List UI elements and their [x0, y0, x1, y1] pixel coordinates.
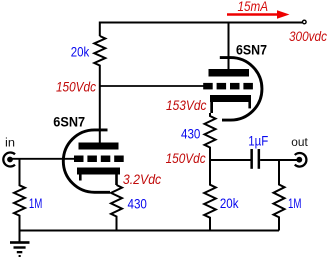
wire: input to V1 grid: [9, 158, 74, 160]
svg-text:430: 430: [181, 126, 201, 142]
svg-text:15mA: 15mA: [238, 0, 269, 14]
tube V1 plate: [79, 143, 119, 150]
svg-text:6SN7: 6SN7: [53, 113, 85, 129]
svg-text:153Vdc: 153Vdc: [166, 97, 207, 113]
svg-text:20k: 20k: [71, 44, 90, 60]
tube V2 grid: [203, 83, 253, 90]
wire: ground rail: [20, 230, 280, 232]
svg-text:1M: 1M: [288, 195, 302, 211]
svg-text:150Vdc: 150Vdc: [166, 150, 206, 166]
tube V1 cathode: [77, 168, 120, 175]
svg-text:20k: 20k: [220, 195, 239, 211]
tube V2 cathode: [210, 95, 251, 102]
wire: node to V2 grid: [100, 85, 204, 87]
svg-text:in: in: [5, 137, 15, 149]
tube V1 cathode lead: [115, 175, 118, 186]
svg-text:1M: 1M: [29, 195, 43, 211]
tube V2 cathode lead: [210, 102, 213, 113]
tube V1 envelope: [63, 130, 110, 192]
ground: [10, 241, 30, 257]
resistor R4 430 (V2 cathode): [205, 113, 216, 160]
wire: V1 plate lead: [99, 86, 101, 143]
tube V2 cathode hook: [248, 102, 251, 108]
svg-text:150Vdc: 150Vdc: [56, 79, 96, 95]
resistor R6 1M (output): [274, 160, 285, 231]
svg-text:6SN7: 6SN7: [236, 41, 267, 57]
tube V1 cathode hook: [79, 175, 82, 181]
wire: node to capacitor: [210, 159, 251, 161]
wire: V2 plate lead: [228, 23, 230, 71]
wire: capacitor to out: [260, 159, 297, 161]
svg-text:1µF: 1µF: [248, 133, 268, 149]
svg-text:300vdc: 300vdc: [289, 28, 327, 44]
current arrow 15mA: [227, 13, 279, 16]
resistor R1 20k (V1 plate load): [94, 36, 105, 86]
svg-text:out: out: [291, 137, 308, 149]
svg-text:430: 430: [128, 195, 148, 211]
terminal J2 out: [295, 153, 307, 167]
svg-text:3.2Vdc: 3.2Vdc: [123, 171, 161, 187]
capacitor C1 1uF: [250, 149, 253, 169]
terminal B+ 300vdc: [303, 20, 307, 24]
tube V2 plate: [209, 69, 250, 77]
resistor R5 20k (V2 load): [204, 160, 216, 231]
tube V2 envelope: [220, 58, 262, 121]
tube V1 grid: [74, 156, 124, 163]
wire: B+ top rail from 20k to 300vdc terminal: [100, 23, 302, 37]
resistor R2 430 (V1 cathode): [111, 185, 122, 231]
resistor R3 1M (input grid leak): [14, 159, 25, 243]
terminal J1 in: [3, 153, 15, 167]
